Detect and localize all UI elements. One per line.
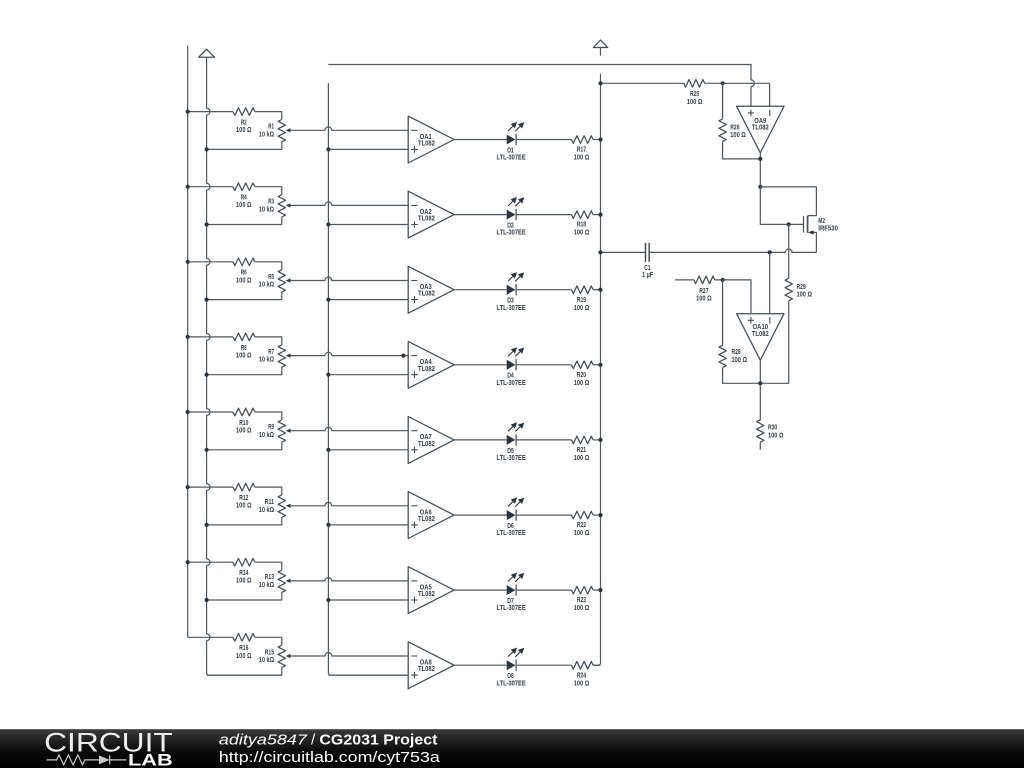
- wire row 3 wiper to op-amp - input (hop over middle rail): [290, 277, 408, 280]
- junction rail B row 6: [205, 523, 209, 527]
- svg-text:100 Ω: 100 Ω: [236, 427, 252, 435]
- LED D4 LTL-307EE: [507, 360, 516, 370]
- wire row 2 wiper to op-amp - input (hop over middle rail): [290, 202, 408, 205]
- resistor R30 100 ohm: [757, 420, 764, 442]
- junction OA9 output node: [758, 185, 762, 189]
- wiper arrow: [286, 128, 291, 132]
- svg-text:100 Ω: 100 Ω: [236, 201, 252, 209]
- resistor R16 100 ohm: [233, 634, 255, 642]
- junction rail B row 4: [205, 373, 209, 377]
- svg-text:100 Ω: 100 Ω: [730, 131, 746, 139]
- wire row 2 top (rail A to pot top): [188, 187, 282, 195]
- svg-text:R24: R24: [577, 671, 586, 679]
- svg-text:TL082: TL082: [418, 665, 435, 673]
- wire R25 branch from right rail: [601, 82, 684, 84]
- svg-text:R17: R17: [577, 146, 586, 154]
- op-amp OA4 TL082: [408, 341, 454, 388]
- wire R20 to right rail: [593, 364, 600, 366]
- svg-text:10 kΩ: 10 kΩ: [259, 281, 274, 289]
- resistor R10 100 ohm: [233, 408, 255, 416]
- op-amp OA7 TL082: [408, 417, 454, 464]
- wire op-amp output row 6: [454, 514, 507, 516]
- wire LED to R22: [516, 514, 571, 516]
- svg-text:100 Ω: 100 Ω: [768, 432, 784, 440]
- capacitor C1 1uF: [646, 243, 650, 262]
- junction gate wire / R29 branch: [787, 222, 791, 226]
- svg-text:LAB: LAB: [128, 752, 173, 768]
- svg-text:R22: R22: [577, 521, 586, 529]
- junction right rail row 2: [598, 213, 602, 217]
- svg-text:R23: R23: [577, 596, 586, 604]
- wire R21 to right rail: [593, 439, 600, 441]
- wire OA9 output to M2 drain: [760, 187, 816, 216]
- wire row 7 wiper to op-amp - input (hop over middle rail): [290, 578, 408, 581]
- wire R17 to right rail: [593, 139, 600, 141]
- wire row 1 top (rail A to pot top): [188, 112, 282, 120]
- resistor R26 100 ohm: [722, 83, 724, 119]
- wire C1 to M2 source (hop over R29 wire): [650, 249, 816, 252]
- svg-text:R15: R15: [265, 648, 274, 656]
- node V+ rail A (left vertical rail): [187, 46, 189, 638]
- resistor R21 100 ohm: [572, 436, 594, 444]
- wiper arrow: [286, 354, 291, 358]
- wire row 6 top (rail A to pot top): [188, 487, 282, 495]
- wire op-amp output row 1: [454, 139, 507, 141]
- resistor R22 100 ohm: [572, 511, 594, 519]
- resistor R4 100 ohm: [233, 183, 255, 191]
- junction right rail C1: [598, 250, 602, 254]
- junction middle rail row 3: [326, 298, 330, 302]
- LED D3 LTL-307EE: [507, 285, 516, 295]
- op-amp OA3 TL082: [408, 266, 454, 313]
- wire OA9 output down: [759, 153, 761, 187]
- wire row 7 + input from middle rail: [328, 599, 408, 601]
- svg-text:R1: R1: [268, 123, 274, 131]
- op-amp OA2 TL082: [408, 191, 454, 238]
- resistor R24 100 ohm: [572, 661, 594, 669]
- wire row 6 + input from middle rail: [328, 524, 408, 526]
- svg-text:R26: R26: [730, 123, 739, 131]
- junction rail A row 1: [186, 110, 190, 114]
- wire R18 to right rail: [593, 214, 600, 216]
- resistor R25 100 ohm: [684, 80, 705, 88]
- svg-text:100 Ω: 100 Ω: [574, 229, 590, 237]
- svg-text:100 Ω: 100 Ω: [797, 291, 813, 299]
- wire op-amp output row 7: [454, 589, 507, 591]
- svg-text:100 Ω: 100 Ω: [236, 502, 252, 510]
- wiper arrow: [286, 429, 291, 433]
- op-amp OA9 TL082 (pointing down): [737, 106, 784, 153]
- svg-text:R28: R28: [732, 348, 741, 356]
- svg-text:100 Ω: 100 Ω: [574, 154, 590, 162]
- svg-text:100 Ω: 100 Ω: [574, 379, 590, 387]
- wire OA10 output down: [759, 360, 761, 420]
- svg-text:http://circuitlab.com/cyt753a: http://circuitlab.com/cyt753a: [219, 749, 441, 766]
- svg-text:10 kΩ: 10 kΩ: [259, 130, 274, 138]
- wire op-amp output row 3: [454, 289, 507, 291]
- resistor R2 100 ohm: [233, 108, 255, 116]
- LED D5 LTL-307EE: [507, 435, 516, 445]
- svg-text:R21: R21: [577, 446, 586, 454]
- junction rail A row 4: [186, 335, 190, 339]
- junction middle rail row 4: [326, 373, 330, 377]
- svg-text:100 Ω: 100 Ω: [236, 126, 252, 134]
- wire row 1 wiper to op-amp - input (hop over middle rail): [290, 127, 408, 130]
- junction right rail row 4: [598, 363, 602, 367]
- transistor M2 IRF530: [803, 216, 805, 233]
- wire op-amp output row 4: [454, 364, 507, 366]
- svg-text:100 Ω: 100 Ω: [574, 454, 590, 462]
- wire R25 to OA9 - input: [705, 83, 770, 106]
- svg-text:aditya5847 / CG2031 Project: aditya5847 / CG2031 Project: [219, 732, 438, 749]
- svg-text:R19: R19: [577, 296, 586, 304]
- wire rail B (second vertical rail with hops over row wires): [207, 57, 282, 675]
- wire LED to R20: [516, 364, 571, 366]
- svg-text:100 Ω: 100 Ω: [236, 577, 252, 585]
- resistor R19 100 ohm: [572, 286, 594, 294]
- wire LED to R17: [516, 139, 571, 141]
- wire R23 to right rail: [593, 589, 600, 591]
- supply arrow 2 (top, above right rail): [593, 40, 607, 47]
- wire row 3 top (rail A to pot top): [188, 262, 282, 270]
- wire row 2 + input from middle rail: [328, 224, 408, 226]
- wire row 4 wiper to op-amp - input (hop over middle rail): [290, 352, 408, 355]
- junction OA9 output / R26 feedback: [758, 157, 762, 161]
- svg-text:100 Ω: 100 Ω: [236, 351, 252, 359]
- wire row 6 wiper to op-amp - input (hop over middle rail): [290, 502, 408, 505]
- op-amp OA5 TL082: [408, 567, 454, 614]
- wire R22 to right rail: [593, 514, 600, 516]
- resistor R23 100 ohm: [572, 586, 594, 594]
- junction middle rail row 1: [326, 147, 330, 151]
- potentiometer R7 10 kohm: [278, 345, 285, 367]
- junction right rail row 1: [598, 137, 602, 141]
- junction rail B row 1: [205, 147, 209, 151]
- potentiometer R9 10 kohm: [278, 420, 285, 442]
- svg-text:R7: R7: [268, 348, 274, 356]
- svg-text:TL082: TL082: [418, 140, 435, 148]
- resistor R20 100 ohm: [572, 361, 594, 369]
- svg-text:R13: R13: [265, 573, 274, 581]
- wire R24 to right rail: [593, 664, 600, 666]
- junction rail A row 5: [186, 410, 190, 414]
- op-amp OA10 TL082 (pointing down): [737, 314, 784, 361]
- svg-text:R9: R9: [268, 423, 274, 431]
- svg-text:100 Ω: 100 Ω: [732, 356, 748, 364]
- wire middle rail (op-amp + bus): [328, 83, 408, 675]
- junction on OA4 - input wire: [401, 354, 405, 358]
- junction OA10 output node: [758, 381, 762, 385]
- LED D7 LTL-307EE: [507, 585, 516, 595]
- junction R27/R28: [721, 278, 725, 282]
- potentiometer R13 10 kohm: [278, 570, 285, 592]
- potentiometer R5 10 kohm: [278, 270, 285, 292]
- wire R19 to right rail: [593, 289, 600, 291]
- wire R27 to OA10 + input: [714, 280, 751, 314]
- resistor R14 100 ohm: [233, 558, 255, 566]
- svg-text:10 kΩ: 10 kΩ: [259, 656, 274, 664]
- svg-text:TL082: TL082: [418, 590, 435, 598]
- svg-text:100 Ω: 100 Ω: [236, 276, 252, 284]
- svg-text:IRF530: IRF530: [818, 225, 838, 233]
- junction right rail row 6: [598, 513, 602, 517]
- svg-text:100 Ω: 100 Ω: [574, 304, 590, 312]
- svg-text:10 kΩ: 10 kΩ: [259, 206, 274, 214]
- junction right rail R25: [598, 81, 602, 85]
- wiper arrow: [286, 504, 291, 508]
- resistor R27 100 ohm: [694, 276, 715, 284]
- resistor R17 100 ohm: [572, 136, 594, 144]
- wire row 5 + input from middle rail: [328, 449, 408, 451]
- svg-text:LTL-307EE: LTL-307EE: [497, 679, 526, 687]
- wire row 7 top (rail A to pot top): [188, 562, 282, 570]
- wire OA9 output to M2 gate: [760, 187, 803, 225]
- junction rail A row 3: [186, 260, 190, 264]
- wire stem of supply arrow 2: [600, 48, 602, 56]
- svg-text:LTL-307EE: LTL-307EE: [497, 454, 526, 462]
- svg-text:100 Ω: 100 Ω: [574, 604, 590, 612]
- resistor R28 100 ohm: [722, 280, 724, 346]
- wire LED to R18: [516, 214, 571, 216]
- wire R27 input: [675, 279, 694, 281]
- wire row 4 top (rail A to pot top): [188, 337, 282, 345]
- wire long top horizontal (to OA9 + input), hop over R25 wire: [328, 65, 754, 107]
- svg-text:100 Ω: 100 Ω: [574, 679, 590, 687]
- wire op-amp output row 2: [454, 214, 507, 216]
- op-amp OA6 TL082: [408, 492, 454, 539]
- wire row 8 + input from middle rail: [328, 674, 408, 676]
- op-amp OA8 TL082: [408, 642, 454, 689]
- svg-text:TL082: TL082: [418, 440, 435, 448]
- junction middle rail row 7: [326, 598, 330, 602]
- potentiometer R15 10 kohm: [278, 645, 285, 667]
- LED D8 LTL-307EE: [507, 660, 516, 670]
- wire LED to R19: [516, 289, 571, 291]
- svg-text:R20: R20: [577, 371, 586, 379]
- wiper arrow: [286, 579, 291, 583]
- LED D1 LTL-307EE: [507, 135, 516, 145]
- svg-text:10 kΩ: 10 kΩ: [259, 431, 274, 439]
- svg-text:10 kΩ: 10 kΩ: [259, 581, 274, 589]
- svg-text:100 Ω: 100 Ω: [696, 294, 712, 302]
- wire row 8 top (rail A to pot top): [188, 637, 282, 645]
- wire row 1 + input from middle rail: [328, 148, 408, 150]
- wire LED to R21: [516, 439, 571, 441]
- wire OA10 - input descender: [769, 252, 771, 313]
- junction right rail row 7: [598, 588, 602, 592]
- wire row 3 + input from middle rail: [328, 299, 408, 301]
- wiper arrow: [286, 203, 291, 207]
- junction rail B row 7: [205, 598, 209, 602]
- wire C1 branch from right rail: [601, 251, 645, 253]
- junction middle rail row 2: [326, 222, 330, 226]
- svg-text:100 Ω: 100 Ω: [236, 652, 252, 660]
- svg-text:10 kΩ: 10 kΩ: [259, 506, 274, 514]
- svg-text:LTL-307EE: LTL-307EE: [497, 604, 526, 612]
- junction right rail row 5: [598, 438, 602, 442]
- junction rail B row 2: [205, 222, 209, 226]
- wire row 5 top (rail A to pot top): [188, 412, 282, 420]
- resistor R8 100 ohm: [233, 333, 255, 341]
- LED D2 LTL-307EE: [507, 210, 516, 220]
- svg-text:TL082: TL082: [418, 290, 435, 298]
- svg-text:LTL-307EE: LTL-307EE: [497, 529, 526, 537]
- resistor R29 100 ohm: [788, 224, 790, 278]
- wiper arrow: [286, 654, 291, 658]
- resistor R12 100 ohm: [233, 483, 255, 491]
- potentiometer R1 10 kohm: [278, 120, 285, 142]
- svg-text:R29: R29: [797, 283, 806, 291]
- junction R25/R26: [721, 81, 725, 85]
- junction right rail row 3: [598, 288, 602, 292]
- svg-text:TL082: TL082: [418, 365, 435, 373]
- junction middle rail row 5: [326, 448, 330, 452]
- svg-text:LTL-307EE: LTL-307EE: [497, 154, 526, 162]
- svg-text:TL082: TL082: [752, 330, 769, 338]
- logo doodle (resistor + diode): [47, 755, 127, 765]
- potentiometer R11 10 kohm: [278, 495, 285, 517]
- junction rail B row 3: [205, 298, 209, 302]
- svg-text:LTL-307EE: LTL-307EE: [497, 379, 526, 387]
- wire row 4 + input from middle rail: [328, 374, 408, 376]
- wire LED to R24: [516, 664, 571, 666]
- op-amp OA1 TL082: [408, 116, 454, 163]
- junction C1 wire / OA10 - input: [768, 250, 772, 254]
- wire row 5 wiper to op-amp - input (hop over middle rail): [290, 427, 408, 430]
- wire right rail (LED output bus): [593, 74, 600, 666]
- svg-text:100 Ω: 100 Ω: [687, 98, 703, 106]
- junction rail A row 6: [186, 485, 190, 489]
- wire op-amp output row 5: [454, 439, 507, 441]
- svg-text:TL082: TL082: [418, 215, 435, 223]
- potentiometer R3 10 kohm: [278, 195, 285, 217]
- svg-text:LTL-307EE: LTL-307EE: [497, 304, 526, 312]
- wire op-amp output row 8: [454, 664, 507, 666]
- junction middle rail row 6: [326, 523, 330, 527]
- resistor R6 100 ohm: [233, 258, 255, 266]
- wiper arrow: [286, 278, 291, 282]
- svg-text:1 µF: 1 µF: [642, 271, 654, 279]
- svg-text:R18: R18: [577, 221, 586, 229]
- svg-text:R30: R30: [768, 424, 777, 432]
- wire LED to R23: [516, 589, 571, 591]
- svg-text:TL082: TL082: [418, 515, 435, 523]
- LED D6 LTL-307EE: [507, 510, 516, 520]
- resistor R18 100 ohm: [572, 211, 594, 219]
- svg-text:100 Ω: 100 Ω: [574, 529, 590, 537]
- svg-text:LTL-307EE: LTL-307EE: [497, 229, 526, 237]
- svg-text:R11: R11: [265, 498, 274, 506]
- svg-text:TL082: TL082: [752, 124, 769, 132]
- svg-text:10 kΩ: 10 kΩ: [259, 356, 274, 364]
- junction rail B row 5: [205, 448, 209, 452]
- supply arrow on rail B: [199, 49, 215, 57]
- junction rail A row 2: [186, 185, 190, 189]
- svg-text:R5: R5: [268, 273, 274, 281]
- wire row 8 wiper to op-amp - input (hop over middle rail): [290, 653, 408, 656]
- svg-text:R3: R3: [268, 198, 274, 206]
- junction rail A row 7: [186, 560, 190, 564]
